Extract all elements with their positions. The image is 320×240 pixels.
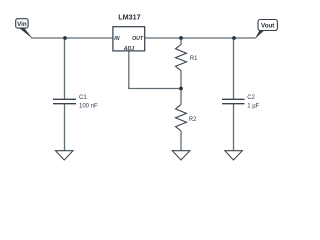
wire input rail xyxy=(31,37,113,39)
capacitor C2 xyxy=(222,99,245,103)
svg-text:R1: R1 xyxy=(190,56,198,62)
wire R1 top xyxy=(180,38,182,45)
svg-text:R2: R2 xyxy=(189,117,197,123)
svg-text:100 nF: 100 nF xyxy=(79,103,98,109)
ground for C2 xyxy=(225,151,243,160)
svg-text:C2: C2 xyxy=(247,95,255,101)
resistor R1 xyxy=(176,45,187,71)
svg-text:C1: C1 xyxy=(79,95,87,101)
resistor R2 xyxy=(176,105,187,131)
svg-text:Vin: Vin xyxy=(17,21,27,28)
label C1 value xyxy=(79,95,98,109)
ground for R2 xyxy=(172,151,190,160)
wire output rail xyxy=(145,37,256,39)
wire R2 to ground xyxy=(180,131,182,151)
wire R1 bottom xyxy=(180,71,182,89)
ground for C1 xyxy=(56,151,74,160)
svg-text:IN: IN xyxy=(114,36,119,42)
wire C2 branch xyxy=(233,38,235,99)
net flag Vin xyxy=(16,19,32,38)
label C2 value xyxy=(247,95,259,109)
op-amp U1 LM317 regulator body xyxy=(113,27,145,51)
capacitor C1 xyxy=(53,99,76,103)
net flag Vout xyxy=(256,20,278,38)
svg-text:ADJ: ADJ xyxy=(123,46,134,52)
wire R2 top xyxy=(180,89,182,105)
node junction ADJ/R1/R2 xyxy=(179,87,183,91)
node junction at C1 branch xyxy=(63,36,67,40)
wire C1 to ground xyxy=(64,104,66,151)
wire ADJ feedback xyxy=(129,51,181,89)
node junction at R1 branch xyxy=(179,36,183,40)
node junction at C2 branch xyxy=(232,36,236,40)
svg-text:LM317: LM317 xyxy=(118,13,140,22)
svg-text:Vout: Vout xyxy=(261,23,274,30)
svg-text:OUT: OUT xyxy=(132,36,144,42)
wire C1 branch xyxy=(64,38,66,99)
svg-text:1 µF: 1 µF xyxy=(247,103,259,109)
wire C2 to ground xyxy=(233,104,235,151)
